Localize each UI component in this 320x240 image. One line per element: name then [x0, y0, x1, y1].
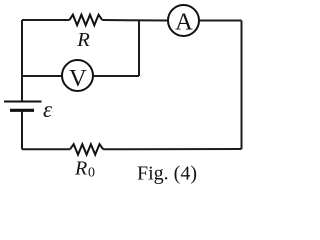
svg-text:0: 0: [88, 166, 95, 181]
node junction at top wire: [138, 20, 140, 76]
svg-text:R: R: [76, 29, 90, 51]
wire voltmeter branch left: [22, 75, 62, 77]
wire from R to ammeter: [102, 19, 168, 22]
wire left side lower: [21, 111, 23, 150]
resistor R: [69, 15, 102, 26]
resistor R0: [70, 144, 103, 154]
battery cell: [4, 102, 42, 111]
wire ammeter to top-right corner: [199, 20, 242, 22]
ammeter A: [168, 5, 199, 36]
voltmeter V: [62, 60, 93, 92]
wire left side upper: [21, 20, 23, 101]
svg-text:V: V: [69, 65, 87, 92]
svg-text:ε: ε: [43, 97, 53, 122]
wire top-left segment: [22, 19, 69, 21]
wire bottom-left segment: [22, 148, 70, 150]
wire bottom-right segment: [103, 148, 241, 150]
svg-text:Fig. (4): Fig. (4): [137, 163, 197, 185]
wire voltmeter branch right: [93, 75, 139, 77]
wire right side: [241, 21, 243, 150]
svg-text:A: A: [175, 9, 193, 36]
svg-text:R: R: [74, 158, 87, 180]
